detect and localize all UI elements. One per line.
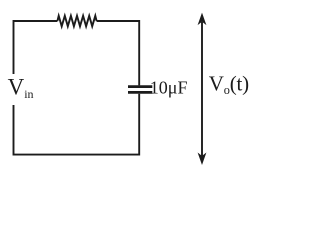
svg-text:Vo(t): Vo(t) — [209, 72, 249, 97]
resistor — [57, 16, 96, 26]
wire: right side lower + bottom side + left side lower — [14, 94, 140, 155]
output voltage measurement arrow Vo(t) — [198, 13, 207, 165]
wire: top side right segment + right side upper down to capacitor — [97, 21, 140, 85]
wire: left side upper + top-left segment — [14, 21, 58, 74]
capacitor bottom plate — [128, 91, 152, 94]
capacitor top plate — [128, 85, 152, 88]
svg-text:10μF: 10μF — [150, 77, 188, 97]
svg-text:Vin: Vin — [8, 74, 34, 100]
